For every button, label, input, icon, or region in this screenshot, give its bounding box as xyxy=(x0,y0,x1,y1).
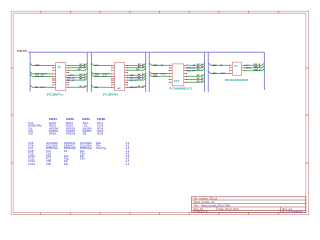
bus drop B5 (right of U4) xyxy=(263,52,265,90)
table group A rows xyxy=(28,121,103,136)
wire U3.R2 SDA_D xyxy=(187,66,205,70)
svg-text:Ch6: Ch6 xyxy=(46,162,51,166)
IC U1 (24C EEPROM) body xyxy=(56,63,66,91)
wire U1.L3 SCL xyxy=(30,74,53,78)
svg-text:P-CHANNEL/C1: P-CHANNEL/C1 xyxy=(170,86,193,90)
svg-text:NC_A: NC_A xyxy=(197,63,203,66)
svg-text:24C04: 24C04 xyxy=(82,117,90,121)
table group B rows xyxy=(28,141,129,166)
svg-text:Date: 25 jun 2013: Date: 25 jun 2013 xyxy=(219,208,239,211)
svg-text:GND: GND xyxy=(153,65,158,67)
svg-text:GND_E: GND_E xyxy=(254,69,262,71)
wire U1.R7 NC_A2 xyxy=(69,85,88,88)
wire U1.L2 SDA xyxy=(30,72,53,76)
wire U2.L3 SCL xyxy=(91,74,111,78)
svg-text:PIC12ADA/S05: PIC12ADA/S05 xyxy=(225,78,249,82)
wire U1.L4 INT xyxy=(30,85,53,89)
wire U1.R5 SDA_B xyxy=(67,76,88,80)
svg-text:NC_2: NC_2 xyxy=(80,79,86,81)
U2 value label FC3KP8+ xyxy=(103,92,119,96)
svg-text:GND: GND xyxy=(35,65,40,67)
bus drop B1 (left of U1) xyxy=(29,52,31,91)
wire U3.L3 GND xyxy=(149,74,169,78)
U1 pins xyxy=(53,65,69,87)
svg-text:GND: GND xyxy=(212,73,217,75)
wire U2.R2 NC_B xyxy=(128,66,146,69)
wire U1.R1 NC_A xyxy=(69,63,88,66)
svg-text:GND: GND xyxy=(153,76,158,78)
U1 value label FC3KP1+ xyxy=(47,92,65,96)
svg-text:4/2-8: 4/2-8 xyxy=(97,132,104,136)
bus drop B4a (right of U3) xyxy=(204,52,206,92)
net mapping table (blue text) xyxy=(28,117,129,166)
svg-text:24C02: 24C02 xyxy=(66,117,74,121)
sheet label TOP_PG xyxy=(17,49,27,53)
U3 pins xyxy=(169,65,186,82)
title block text xyxy=(194,197,304,213)
wire U2.R6 SCL_C xyxy=(128,78,146,82)
svg-text:SCL_E: SCL_E xyxy=(254,64,261,66)
bus drop B2a (right of U1) xyxy=(86,52,88,92)
wire U2.R7 SDA_4 xyxy=(128,85,146,89)
U2 pins xyxy=(112,65,128,87)
svg-text:24C01: 24C01 xyxy=(49,117,57,121)
wire U4.R2 SDA_E xyxy=(244,66,264,70)
svg-text:SDA_E: SDA_E xyxy=(254,66,262,69)
svg-text:NC_2: NC_2 xyxy=(138,79,144,81)
wire U2.R4 A2 xyxy=(128,73,146,77)
wire U4.R3 GND_E xyxy=(244,69,264,72)
wire U3.R5 NC_D xyxy=(187,77,205,80)
bus drop B3a (right of U2) xyxy=(145,52,147,92)
wire U2.R3 NC xyxy=(128,68,146,71)
U4 pins xyxy=(230,65,245,73)
wire U2.L4 INT xyxy=(91,85,111,89)
svg-text:KiCad E.D.A.: KiCad E.D.A. xyxy=(194,210,209,213)
svg-text:NC: NC xyxy=(78,69,82,71)
svg-text:NC_C: NC_C xyxy=(197,75,203,77)
bus drop B4b (left of U4) xyxy=(207,52,209,92)
svg-text:F2j: F2j xyxy=(64,162,68,166)
wire U2.L1 NC1 xyxy=(91,63,111,67)
wire U2.R5 SDA_C xyxy=(128,76,146,80)
svg-text:F2h: F2h xyxy=(80,157,85,161)
svg-text:O/D: O/D xyxy=(28,132,33,136)
svg-text:54/2/54: 54/2/54 xyxy=(66,132,75,136)
svg-text:FC13: FC13 xyxy=(28,162,35,166)
svg-text:NC_A: NC_A xyxy=(80,85,86,88)
bus drop B3b (left of U3) xyxy=(148,52,150,92)
svg-text:24C: 24C xyxy=(117,87,121,90)
bus (horizontal main bus) xyxy=(28,51,264,53)
svg-text:NC_D: NC_D xyxy=(197,78,203,80)
wire U1.R4 A2 xyxy=(69,73,88,77)
svg-text:2/17 eeschema: 2/17 eeschema xyxy=(286,210,304,213)
svg-text:24C: 24C xyxy=(57,65,61,68)
title block xyxy=(192,197,306,213)
wire U2.R1 NC_A xyxy=(128,63,146,66)
wire U3.R6 NC_E xyxy=(187,80,205,83)
wire U2.L2 SDA xyxy=(91,72,111,76)
svg-text:SCL/Typ: SCL/Typ xyxy=(96,146,107,150)
svg-text:FC3KP8+: FC3KP8+ xyxy=(103,92,119,96)
svg-text:NC_E: NC_E xyxy=(197,81,203,83)
wire U3.R1 A1 xyxy=(187,63,205,67)
svg-text:SCL: SCL xyxy=(95,76,100,78)
svg-text:24C08: 24C08 xyxy=(97,117,105,121)
sheet border frame (decorative) xyxy=(11,11,308,214)
wire U3.L2 VCC xyxy=(149,71,169,75)
wire U4.L1 GND xyxy=(208,63,229,67)
svg-text:4/2: 4/2 xyxy=(83,132,87,136)
svg-text:-: - xyxy=(96,150,97,153)
IC U3 (P-CHANNEL driver) body xyxy=(172,64,184,86)
svg-text:GND: GND xyxy=(153,73,158,75)
wire U3.R4 NC_C xyxy=(187,74,205,77)
U4 value label PIC12ADA/S05 xyxy=(225,78,249,82)
svg-text:NC_A: NC_A xyxy=(138,85,144,88)
svg-text:4.2: 4.2 xyxy=(126,162,130,166)
U3 value label P-CHANNEL/C1 xyxy=(170,86,193,90)
wire U4.L2 VCC xyxy=(208,71,229,75)
wire U1.R6 SCL_B xyxy=(67,78,88,82)
svg-text:TOP PG: TOP PG xyxy=(17,49,27,53)
svg-text:54/2/1: 54/2/1 xyxy=(49,132,57,136)
wire U1.R3 NC xyxy=(69,68,88,71)
svg-text:NC: NC xyxy=(136,69,140,71)
svg-text:24C: 24C xyxy=(234,64,238,67)
svg-text:GND: GND xyxy=(212,65,217,67)
IC U2 (24C EEPROM) body xyxy=(115,63,125,91)
svg-text:NC: NC xyxy=(197,69,201,71)
svg-text:C1T: C1T xyxy=(174,79,180,83)
wire U3.L1 GND xyxy=(149,63,169,67)
bus drop B2b (left of U2) xyxy=(90,52,92,92)
IC U4 (PIC12 MCU) body xyxy=(232,62,241,75)
wire U1.R2 NC_B xyxy=(69,66,88,69)
wire U3.R3 SCL_D xyxy=(187,68,205,72)
table header row xyxy=(49,117,105,121)
wire U4.R1 A1 xyxy=(244,63,264,67)
wire U1.L1 GND xyxy=(30,63,53,67)
svg-text:SCL: SCL xyxy=(35,76,40,78)
svg-text:FC3KP1+: FC3KP1+ xyxy=(47,92,65,96)
